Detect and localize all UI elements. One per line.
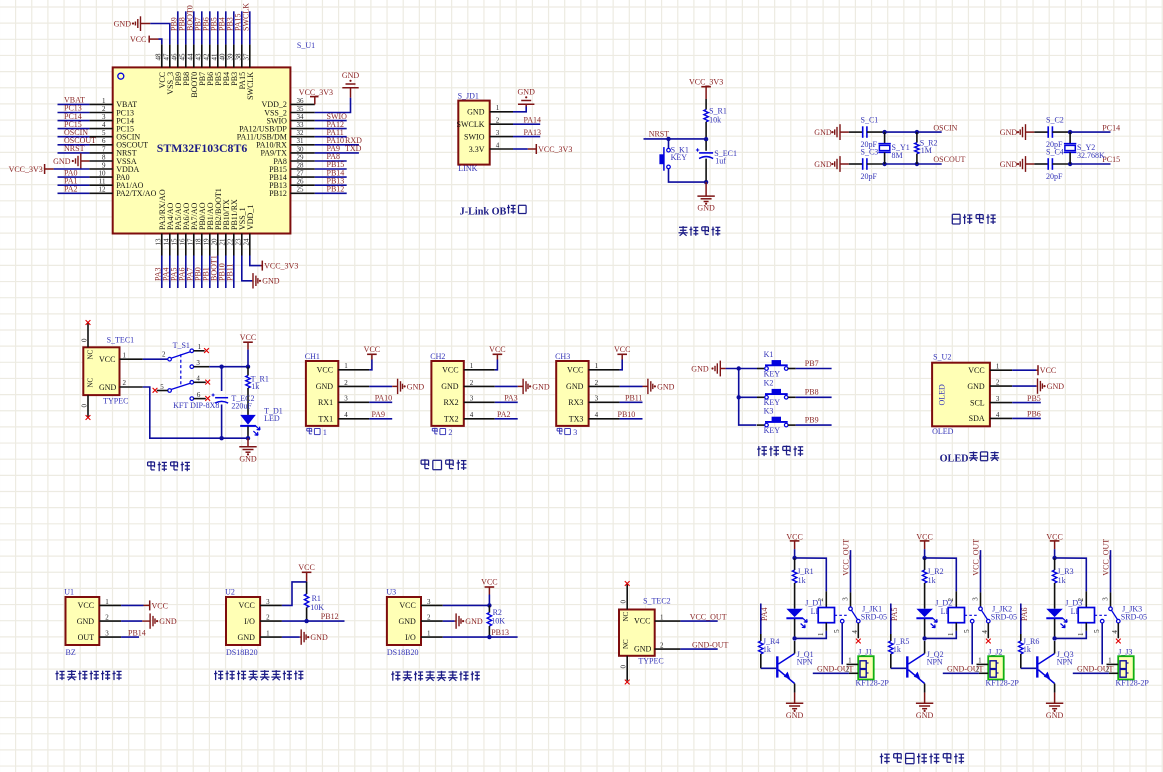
svg-text:4: 4 — [996, 411, 1000, 419]
relay coil-contact dashed link — [835, 614, 848, 616]
svg-text:1: 1 — [105, 598, 109, 606]
svg-text:11: 11 — [99, 178, 106, 186]
resistor J_R1 1k — [794, 558, 796, 570]
svg-text:4: 4 — [196, 374, 200, 382]
svg-text:GND: GND — [1047, 382, 1065, 391]
U3 pin 2 GND — [421, 620, 443, 622]
mcu pin 46 PB9 — [177, 44, 179, 67]
net label PA13 — [513, 136, 540, 138]
svg-text:CH2: CH2 — [430, 352, 445, 361]
svg-text:VCC: VCC — [130, 35, 146, 44]
svg-text:0: 0 — [620, 600, 628, 604]
U3 pin 3 VCC — [421, 604, 443, 606]
ground relay J_Q1 — [794, 693, 796, 704]
svg-text:2: 2 — [996, 379, 1000, 387]
mcu pin 35 VSS_2 — [290, 112, 314, 114]
wire + net label PB0 — [201, 256, 203, 289]
svg-text:1: 1 — [470, 362, 474, 370]
mcu pin 15 PA5/AO — [177, 234, 179, 256]
svg-text:PA13: PA13 — [524, 128, 542, 137]
svg-text:2: 2 — [660, 641, 664, 649]
wire + net label BOOT0 — [193, 11, 195, 44]
title crystal circuit — [952, 213, 960, 215]
svg-text:NC: NC — [622, 611, 630, 621]
ground relay J_Q3 — [1054, 693, 1056, 704]
svg-text:VCC: VCC — [238, 601, 254, 610]
svg-text:OLED: OLED — [932, 427, 954, 436]
svg-text:VCC_OUT: VCC_OUT — [690, 612, 727, 621]
svg-text:5: 5 — [963, 629, 971, 633]
resistor J_R2 1k — [924, 558, 926, 570]
svg-text:S_C4: S_C4 — [1046, 147, 1064, 156]
svg-text:PB13: PB13 — [491, 628, 509, 637]
svg-text:SRD-05: SRD-05 — [861, 613, 887, 622]
relay contact pin 4 no-connect — [1117, 619, 1121, 623]
svg-text:39: 39 — [226, 53, 234, 61]
svg-text:6: 6 — [197, 391, 201, 399]
svg-text:VCC_OUT: VCC_OUT — [842, 539, 851, 576]
svg-text:OLED: OLED — [940, 453, 969, 464]
svg-text:2: 2 — [427, 614, 431, 622]
net label PB10 — [620, 418, 643, 420]
relay contact pin 4 no-connect — [987, 619, 991, 623]
svg-text:TXD: TXD — [345, 144, 362, 153]
svg-text:4: 4 — [344, 411, 348, 419]
tec1 top no-connect stub pin 0 — [87, 323, 89, 348]
power VCC CH2 — [495, 360, 498, 370]
svg-text:S_C1: S_C1 — [861, 116, 879, 125]
svg-text:VCC: VCC — [99, 355, 115, 364]
wire base — [1021, 667, 1036, 669]
svg-text:SRD-05: SRD-05 — [1121, 613, 1147, 622]
power VCC U1 — [121, 604, 143, 606]
wire + net label PB9 — [796, 424, 832, 426]
svg-text:PB10: PB10 — [618, 410, 636, 419]
wire + net label PB4 — [225, 11, 227, 44]
svg-text:2: 2 — [162, 351, 166, 359]
relay coil J_JK1 SRD-05 — [825, 591, 827, 607]
net label PB11 — [620, 401, 643, 403]
svg-text:10k: 10k — [709, 115, 721, 124]
svg-text:4: 4 — [981, 630, 989, 634]
resistor J_R5 1k — [890, 634, 892, 641]
wire to PC14 — [1070, 131, 1110, 133]
mcu pin 9 VDDA — [89, 168, 112, 170]
svg-text:1: 1 — [1108, 656, 1112, 664]
svg-text:4: 4 — [851, 630, 859, 634]
svg-text:VCC: VCC — [399, 601, 415, 610]
svg-text:PB7: PB7 — [805, 359, 819, 368]
svg-text:2: 2 — [105, 614, 109, 622]
svg-text:1: 1 — [102, 97, 106, 105]
svg-text:3: 3 — [470, 395, 474, 403]
svg-text:20pF: 20pF — [1046, 172, 1063, 181]
oled pin 2 GND — [990, 385, 1012, 387]
wire + net label PA7 — [193, 256, 195, 289]
led J_D3 LED — [1046, 609, 1063, 617]
capacitor S_C1 20pF — [849, 131, 863, 133]
svg-text:2: 2 — [102, 105, 106, 113]
key K3 KEY — [757, 424, 765, 426]
svg-text:17: 17 — [186, 238, 194, 246]
svg-text:U3: U3 — [386, 588, 396, 597]
svg-text:PA14: PA14 — [524, 115, 542, 124]
ground at VCC... top GND to pin 47 — [141, 23, 151, 25]
svg-text:S_U1: S_U1 — [297, 41, 315, 50]
wire to PC15 — [1070, 163, 1110, 165]
svg-text:2: 2 — [496, 117, 500, 125]
key S_K1 KEY — [668, 139, 670, 148]
svg-text:GND: GND — [916, 711, 934, 720]
svg-text:GND: GND — [342, 71, 360, 80]
svg-text:14: 14 — [162, 238, 170, 246]
svg-text:NRST: NRST — [64, 144, 85, 153]
svg-text:2: 2 — [817, 598, 825, 602]
svg-text:R1: R1 — [312, 594, 321, 603]
mcu pin 31 PA10/RX — [290, 144, 314, 146]
jlink pin 3 SWIO — [490, 136, 513, 138]
svg-text:PB5: PB5 — [1027, 394, 1041, 403]
svg-text:VCC: VCC — [298, 563, 314, 572]
svg-text:VCC_3V3: VCC_3V3 — [689, 78, 723, 87]
svg-text:J_R2: J_R2 — [927, 567, 943, 576]
svg-text:J_J2: J_J2 — [988, 648, 1002, 657]
svg-text:S_R1: S_R1 — [709, 107, 727, 116]
svg-text:GND: GND — [441, 382, 459, 391]
svg-text:21: 21 — [218, 238, 226, 246]
ground U2 — [282, 636, 300, 638]
svg-text:1: 1 — [323, 428, 327, 437]
jlink pin 2 SWCLK — [490, 123, 513, 125]
ground at VSS_1 pin 23 — [242, 256, 252, 281]
wire + net label PA2 — [58, 192, 90, 194]
svg-text:VCC_3V3: VCC_3V3 — [264, 262, 298, 271]
wire + net label PB1 — [209, 256, 211, 289]
svg-text:35: 35 — [297, 105, 305, 113]
mcu pin 45 PB8 — [185, 44, 187, 67]
wire + net label VBAT — [58, 103, 90, 105]
power VCC CH3 — [620, 360, 623, 370]
wire to OSCIN — [885, 131, 942, 133]
CH2 pin 2 GND — [464, 385, 495, 387]
svg-text:32.768K: 32.768K — [1077, 151, 1105, 160]
svg-text:VCC: VCC — [968, 366, 984, 375]
wire + net label PA5 — [177, 256, 179, 289]
wire U2 vcc — [282, 582, 307, 606]
svg-text:J_R1: J_R1 — [797, 567, 813, 576]
svg-text:VCC: VCC — [489, 345, 505, 354]
mcu pin 17 PA7/AO — [193, 234, 195, 256]
svg-text:VCC_3V3: VCC_3V3 — [538, 145, 572, 154]
title ambient temperature module — [215, 671, 217, 681]
label serial 1 — [307, 427, 312, 429]
svg-text:1k: 1k — [763, 645, 771, 654]
wire led/coil/collector node — [792, 636, 796, 640]
wire + net label PB12 — [315, 192, 347, 194]
svg-text:46: 46 — [170, 53, 178, 61]
U1 pin 1 VCC — [99, 604, 121, 606]
svg-text:TYPEC: TYPEC — [638, 657, 663, 666]
svg-text:PA3: PA3 — [504, 394, 518, 403]
svg-text:PB11: PB11 — [225, 264, 234, 282]
svg-text:24: 24 — [242, 238, 250, 246]
wire + net label SWCLK — [249, 11, 251, 44]
svg-text:4: 4 — [102, 121, 106, 129]
net label PB14 — [121, 636, 139, 638]
svg-text:PB6: PB6 — [1027, 410, 1041, 419]
svg-text:1k: 1k — [928, 576, 936, 585]
resistor R2 10K pullup — [488, 605, 490, 612]
mcu pin 14 PA4/AO — [169, 234, 171, 256]
mcu pin 10 PA0 — [89, 176, 112, 178]
title power circuit — [148, 461, 155, 463]
svg-text:4: 4 — [470, 411, 474, 419]
svg-text:3: 3 — [996, 395, 1000, 403]
svg-text:S_TEC1: S_TEC1 — [107, 336, 135, 345]
resistor J_R6 1k — [1020, 634, 1022, 641]
wire + net label PA3 — [161, 256, 163, 289]
transistor J_Q3 NPN — [1036, 656, 1038, 677]
relay lever — [982, 610, 988, 620]
svg-text:GND: GND — [467, 108, 485, 117]
svg-text:10: 10 — [99, 170, 107, 178]
net label PB5 — [1012, 402, 1041, 404]
wire + net label PB14 — [315, 176, 347, 178]
svg-text:27: 27 — [297, 170, 305, 178]
svg-text:J_J3: J_J3 — [1118, 648, 1132, 657]
svg-text:NC: NC — [87, 377, 95, 387]
svg-text:3: 3 — [496, 129, 500, 137]
mcu pin 30 PA9/TX — [290, 152, 314, 154]
svg-text:S_TEC2: S_TEC2 — [643, 596, 671, 605]
wire + net label PA15 — [241, 11, 243, 44]
svg-text:47: 47 — [162, 53, 170, 61]
CH1 pin 2 GND — [338, 385, 369, 387]
svg-text:VCC: VCC — [567, 366, 583, 375]
svg-text:U1: U1 — [64, 588, 74, 597]
crystal S_Y1 8M — [884, 132, 886, 144]
svg-text:41: 41 — [210, 53, 218, 61]
svg-text:PB12: PB12 — [327, 185, 345, 194]
svg-text:PA10: PA10 — [375, 394, 393, 403]
svg-text:32: 32 — [297, 129, 305, 137]
mcu pin 12 PA2/TX/AO — [89, 192, 112, 194]
power VCC_3V3 at jlink pin 4 — [513, 148, 528, 150]
svg-text:1uf: 1uf — [715, 156, 726, 165]
svg-text:PA2/TX/AO: PA2/TX/AO — [116, 189, 156, 198]
svg-text:2: 2 — [266, 614, 270, 622]
wire NRST — [644, 138, 707, 140]
svg-text:GND: GND — [814, 160, 832, 169]
svg-text:K1: K1 — [764, 350, 774, 359]
svg-text:1: 1 — [344, 362, 348, 370]
relay lever — [1112, 610, 1118, 620]
mcu pin 41 PB5 — [217, 44, 219, 67]
svg-text:15: 15 — [170, 238, 178, 246]
wire + net label BOOT1 — [217, 256, 219, 289]
capacitor T_EC2 220uF — [221, 367, 223, 391]
wire + net label PC14 — [58, 120, 90, 122]
svg-text:KEY: KEY — [764, 369, 781, 378]
ground power circuit — [247, 438, 249, 447]
mcu pin 21 PB10/TX — [225, 234, 227, 256]
svg-text:33: 33 — [297, 121, 305, 129]
svg-text:31: 31 — [297, 137, 305, 145]
wire + net label PB7 — [796, 368, 832, 370]
svg-text:VCC_OUT: VCC_OUT — [972, 539, 981, 576]
U2 pin 1 GND — [260, 636, 282, 638]
ground at VSS_2 pin 35 — [315, 98, 351, 113]
svg-text:TX2: TX2 — [444, 415, 459, 424]
svg-text:PB12: PB12 — [269, 189, 287, 198]
mcu pin 33 PA12/USB/DP — [290, 128, 314, 130]
wire base — [891, 667, 906, 669]
svg-text:18: 18 — [194, 238, 202, 246]
transistor J_Q1 NPN — [776, 656, 778, 677]
svg-text:LINK: LINK — [458, 164, 477, 173]
wire + net label PB8 — [796, 396, 832, 398]
wire base — [761, 667, 776, 669]
wire + net label PC13 — [58, 112, 90, 114]
title infrared module — [56, 671, 58, 680]
svg-text:1: 1 — [198, 343, 202, 351]
relay lever — [852, 610, 858, 620]
net label PB6 — [1012, 417, 1041, 419]
svg-text:37: 37 — [242, 53, 250, 61]
svg-text:SDA: SDA — [969, 414, 985, 423]
svg-text:RX1: RX1 — [318, 398, 333, 407]
relay coil-contact dashed link — [965, 614, 978, 616]
svg-text:DS18B20: DS18B20 — [226, 648, 258, 657]
mcu pin 38 PA15 — [241, 44, 243, 67]
svg-text:VCC: VCC — [614, 345, 630, 354]
wire U3 vcc — [443, 604, 490, 606]
svg-text:GND: GND — [465, 617, 483, 626]
relay contact pin 5 — [840, 619, 844, 623]
svg-text:J_J1: J_J1 — [858, 648, 872, 657]
svg-text:1: 1 — [595, 362, 599, 370]
mcu pin 34 SWIO — [290, 120, 314, 122]
svg-text:19: 19 — [202, 238, 210, 246]
svg-text:3: 3 — [427, 598, 431, 606]
svg-text:44: 44 — [186, 53, 194, 61]
svg-text:PA2: PA2 — [64, 185, 78, 194]
svg-text:KEY: KEY — [764, 426, 781, 435]
svg-text:KF128-2P: KF128-2P — [986, 679, 1020, 688]
svg-text:PC14: PC14 — [1102, 123, 1120, 132]
svg-text:BZ: BZ — [66, 648, 76, 657]
svg-text:16: 16 — [178, 238, 186, 246]
svg-text:2: 2 — [448, 428, 452, 437]
svg-text:SRD-05: SRD-05 — [991, 613, 1017, 622]
wire + net label PB10 — [225, 256, 227, 289]
svg-text:TYPEC: TYPEC — [103, 396, 128, 405]
svg-text:VCC_3V3: VCC_3V3 — [9, 165, 43, 174]
net label PA3 — [495, 401, 518, 403]
ground at jlink pin 1 — [513, 107, 526, 112]
svg-text:5: 5 — [102, 129, 106, 137]
svg-text:1: 1 — [123, 351, 127, 359]
mcu pin 25 PB12 — [290, 192, 314, 194]
svg-text:GND: GND — [53, 157, 71, 166]
capacitor S_C4 20pF — [1034, 163, 1048, 165]
svg-text:I/O: I/O — [244, 617, 255, 626]
svg-text:20pF: 20pF — [861, 172, 878, 181]
oled pin 1 VCC — [990, 369, 1012, 371]
svg-text:48: 48 — [154, 53, 162, 61]
svg-text:1: 1 — [978, 656, 982, 664]
svg-text:GND: GND — [786, 711, 804, 720]
svg-text:3.3V: 3.3V — [469, 145, 485, 154]
wire + net label PA4 — [169, 256, 171, 289]
wire + net label PB6 — [209, 11, 211, 44]
svg-text:4: 4 — [595, 411, 599, 419]
svg-text:3: 3 — [102, 113, 106, 121]
svg-text:GND: GND — [1000, 128, 1018, 137]
svg-text:2: 2 — [470, 379, 474, 387]
node NRST junction — [704, 137, 708, 141]
svg-text:1k: 1k — [798, 576, 806, 585]
mcu pin 42 PB6 — [209, 44, 211, 67]
wire + net label PB13 — [443, 636, 518, 638]
wire + net label OSCIN — [58, 136, 90, 138]
svg-text:GND: GND — [967, 382, 985, 391]
svg-text:1: 1 — [947, 632, 955, 636]
svg-text:PA9: PA9 — [372, 410, 386, 419]
label serial 3 — [557, 427, 562, 429]
ground relay J_Q2 — [924, 693, 926, 704]
svg-text:U2: U2 — [225, 588, 235, 597]
svg-text:29: 29 — [297, 153, 305, 161]
svg-text:43: 43 — [194, 53, 202, 61]
svg-text:1: 1 — [817, 632, 825, 636]
svg-text:6: 6 — [102, 137, 106, 145]
net label PA10 — [369, 401, 392, 403]
svg-text:K2: K2 — [764, 379, 774, 388]
svg-text:VCC: VCC — [364, 345, 380, 354]
svg-text:3: 3 — [573, 428, 577, 437]
svg-text:TX3: TX3 — [569, 415, 584, 424]
key K1 KEY — [739, 368, 757, 370]
relay contact pin 5 — [970, 619, 974, 623]
svg-text:42: 42 — [202, 53, 210, 61]
svg-text:VCC: VCC — [634, 617, 650, 626]
svg-text:GND: GND — [114, 19, 132, 28]
svg-text:KFT DIP-8X8: KFT DIP-8X8 — [173, 401, 219, 410]
svg-text:45: 45 — [178, 53, 186, 61]
svg-text:GND: GND — [99, 383, 117, 392]
key K2 KEY — [739, 396, 757, 398]
wire + net label PB8 — [185, 11, 187, 44]
svg-text:STM32F103C8T6: STM32F103C8T6 — [157, 141, 248, 155]
U3 pin 1 I/O — [421, 636, 443, 638]
svg-text:KEY: KEY — [671, 153, 688, 162]
svg-text:NPN: NPN — [797, 658, 813, 667]
mcu pin 23 VSS_1 — [241, 234, 243, 256]
wire + net label PB13 — [315, 184, 347, 186]
mcu pin 18 PB0/AO — [201, 234, 203, 256]
svg-text:GND: GND — [657, 382, 675, 391]
CH3 pin 2 GND — [589, 385, 620, 387]
svg-text:2: 2 — [595, 379, 599, 387]
mcu pin 39 PB3 — [233, 44, 235, 67]
ground U3 — [443, 620, 455, 622]
J_J1 pin 2 GND-OUT — [849, 672, 858, 674]
svg-text:PB12: PB12 — [321, 612, 339, 621]
mcu pin 7 NRST — [89, 152, 112, 154]
J_J2 pin 1 — [977, 663, 989, 665]
mcu pin 22 PB11/RX — [233, 234, 235, 256]
